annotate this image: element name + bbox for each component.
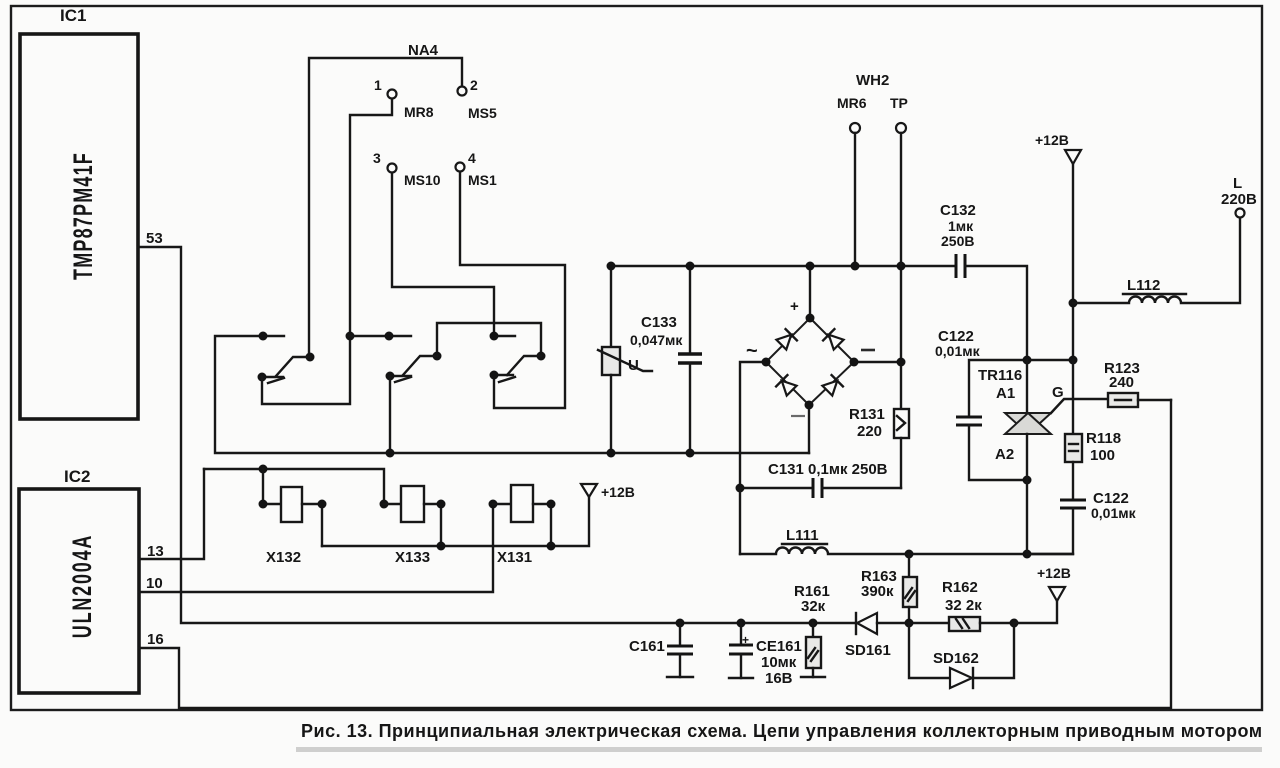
terminal 2 circle [458, 87, 467, 96]
varistor U diagonal with tail [598, 350, 652, 371]
wire varistor upper lead [610, 266, 612, 347]
wire X133 coil right lead down to +12V bus [424, 504, 441, 546]
wire SD162 right leg [973, 623, 1014, 678]
wire MR8 node to S2 upper contact [350, 335, 411, 337]
svg-text:TP: TP [890, 95, 908, 111]
switch S3 arm [507, 356, 541, 375]
wire C131 node down to L111 bus [739, 488, 741, 554]
wire X132 coil right lead down to +12V bus [302, 504, 322, 546]
junction dot bus at X133 [437, 542, 446, 551]
relay coil X132 box [281, 487, 302, 522]
diode SD162 [950, 668, 973, 688]
wire C133 lower lead [689, 363, 691, 453]
wire MR6 down to AC bus [854, 133, 856, 266]
junction dot bridge top on AC bus [806, 262, 815, 271]
capacitor C131 plates [813, 478, 822, 498]
svg-text:IC1: IC1 [60, 6, 86, 25]
terminal 3 circle [388, 164, 397, 173]
capacitor CE161 plates [729, 645, 753, 654]
L112 label underline [1123, 293, 1186, 295]
R161 power marks [808, 648, 818, 661]
L111 label underline [782, 543, 827, 545]
switch S3 upper contact stub [494, 335, 515, 337]
junction dot varistor top [607, 262, 616, 271]
svg-text:16В: 16В [765, 670, 793, 687]
wire TP circle stem [900, 133, 902, 266]
junction dot C133 bottom on bus A [686, 449, 695, 458]
bridge diode D2 upper-right [823, 329, 844, 350]
wire X131 coil left lead [493, 503, 511, 505]
wire +12V stem down to A1 line [1072, 164, 1074, 360]
svg-text:U: U [628, 357, 639, 374]
svg-text:1: 1 [374, 77, 382, 93]
svg-text:240: 240 [1109, 374, 1134, 391]
wire R161 upper lead [812, 623, 814, 637]
resistor R131 box [894, 409, 909, 438]
junction dot L111 bus at R163 [905, 550, 914, 559]
bridge minus label right [861, 349, 875, 352]
junction dot L111 bus at A2 [1023, 550, 1032, 559]
svg-text:+: + [790, 298, 799, 315]
svg-text:A1: A1 [996, 385, 1015, 402]
terminal 4 circle [456, 163, 465, 172]
switch S3 lower contact stub [494, 374, 513, 376]
wire R161 lower lead with end bar [801, 668, 825, 677]
wire SD161 to R163 node [877, 622, 949, 624]
wire bridge right vertex to TP net [854, 361, 901, 363]
junction dot X131 right [547, 500, 556, 509]
switch S2 lower contact dot [386, 372, 395, 381]
wire triac gate to R123 [1051, 399, 1108, 413]
inductor L112 [1073, 218, 1240, 303]
wire NA4 bracket from terminal 2 to switch S1 pivot [309, 58, 462, 357]
wire X131 coil right lead down to +12V bus [533, 504, 551, 546]
capacitor C161 plates [667, 646, 693, 654]
junction dot X132 left [259, 500, 268, 509]
terminal 1 circle [388, 90, 397, 99]
svg-text:A2: A2 [995, 446, 1014, 463]
diode SD161 [856, 613, 877, 634]
svg-text:2: 2 [470, 77, 478, 93]
wire bridge top vertex to AC bus [809, 266, 811, 318]
svg-text:NA4: NA4 [408, 42, 439, 59]
bridge minus label bottom [791, 415, 805, 417]
terminal MR6 circle [850, 123, 860, 133]
wire IC2 pin 13 to relay coil bus [139, 469, 204, 559]
svg-text:R162: R162 [942, 579, 978, 596]
svg-text:SD162: SD162 [933, 650, 979, 667]
svg-text:R131: R131 [849, 406, 885, 423]
junction dot C133 top [686, 262, 695, 271]
svg-text:+12В: +12В [1035, 132, 1069, 148]
wire A1 node line [969, 360, 1073, 417]
terminal L 220V circle [1236, 209, 1245, 218]
junction dot C131 left node [736, 484, 745, 493]
junction dot L112 branch [1069, 299, 1078, 308]
svg-text:C133: C133 [641, 314, 677, 331]
svg-text:220В: 220В [1221, 191, 1257, 208]
svg-text:+12В: +12В [601, 484, 635, 500]
svg-text:0,047мк: 0,047мк [630, 332, 683, 348]
svg-text:X133: X133 [395, 549, 430, 566]
junction dot A2 node [1023, 476, 1032, 485]
varistor U box [602, 347, 620, 375]
svg-text:13: 13 [147, 543, 164, 560]
wire C133 upper lead [689, 266, 691, 354]
switch S2 lower contact [390, 375, 411, 377]
wire C161 upper lead [679, 623, 681, 646]
wire bus A with S1 upper contact and left riser [215, 336, 809, 453]
switch S1 arm [276, 357, 310, 376]
svg-text:53: 53 [146, 230, 163, 247]
junction dot X133 right [437, 500, 446, 509]
svg-text:G: G [1052, 384, 1064, 401]
IC U IC2 box [19, 489, 139, 693]
svg-text:0,01мк: 0,01мк [935, 343, 981, 359]
svg-text:3: 3 [373, 150, 381, 166]
wire TP net vertical to R131 [900, 266, 902, 409]
wire triac A1 lead [1026, 360, 1028, 413]
junction dot A1 at R118 branch [1069, 356, 1078, 365]
svg-text:CE161: CE161 [756, 638, 802, 655]
wire terminal 1 MR8 net down to junction [350, 99, 392, 336]
power +12V antenna symbol right [1049, 587, 1065, 601]
junction dot X133 left [380, 500, 389, 509]
wire IC2 pin 10 to relay X131 coil [139, 504, 493, 592]
terminal TP circle [896, 123, 906, 133]
junction dot signal at R161 [809, 619, 818, 628]
svg-text:MR8: MR8 [404, 104, 434, 120]
switch S3 upper contact dot [490, 332, 499, 341]
svg-text:MR6: MR6 [837, 95, 867, 111]
resistor R118 box [1065, 434, 1082, 462]
svg-text:0,01мк: 0,01мк [1091, 505, 1137, 521]
junction dot TP on AC bus [897, 262, 906, 271]
R118 power marks [1069, 444, 1078, 451]
R123 power mark [1115, 399, 1131, 401]
bridge diode D3 lower-left [776, 375, 797, 396]
wire relay bottom +12V bus [322, 497, 589, 546]
switch S1 lower contact [262, 376, 283, 378]
svg-text:L111: L111 [786, 527, 819, 544]
junction dot S1 upper contact [259, 332, 268, 341]
wire terminal 3 MS10 net to switch S3 upper contact [392, 173, 494, 336]
wire R118 branch from A1 line [1072, 360, 1074, 434]
wire R123 right to bottom bus riser [1138, 399, 1171, 401]
capacitor C132 plates [956, 254, 965, 278]
switch S1 arm tick [268, 378, 284, 383]
bridge diode D4 lower-right [822, 375, 843, 396]
IC U IC1 box [20, 34, 138, 419]
wire relay coil top bus [204, 469, 384, 504]
junction dot bus at X131 [547, 542, 556, 551]
switch S1 lower contact dot [258, 373, 267, 382]
switch S2 arm [403, 356, 437, 375]
wire X132 coil left lead [263, 469, 281, 504]
svg-text:4: 4 [468, 150, 476, 166]
svg-text:220: 220 [857, 423, 882, 440]
switch S3 lower contact dot [490, 371, 499, 380]
svg-text:+12В: +12В [1037, 565, 1071, 581]
svg-text:C132: C132 [940, 202, 976, 219]
bridge vertex dots [762, 314, 859, 410]
bridge rectifier diamond [766, 318, 854, 405]
wire C131 left lead [740, 487, 813, 489]
wire S2 S3 pivot bus [437, 323, 541, 356]
wire C132 right lead down to A1 node [965, 266, 1027, 360]
resistor R163 box [903, 577, 917, 607]
resistor R161 box [806, 637, 821, 668]
junction dot coil bus X132 [259, 465, 268, 474]
switch S1 pivot dot [306, 353, 315, 362]
power +12V antenna symbol middle [1065, 150, 1081, 164]
wire +12V node to antenna [1014, 601, 1057, 623]
wire signal line C161 to SD161 [680, 622, 856, 624]
svg-text:SD161: SD161 [845, 642, 891, 659]
wire X133 coil left lead [384, 503, 401, 505]
capacitor C122 snubber plates [956, 417, 982, 425]
wire R163 lower lead [908, 607, 910, 623]
svg-text:32к: 32к [801, 598, 826, 615]
junction dot X131 left [489, 500, 498, 509]
resistor R162 box [949, 617, 980, 631]
junction dot R163 node [905, 619, 914, 628]
svg-text:MS1: MS1 [468, 172, 497, 188]
junction dot MR6 on AC bus [851, 262, 860, 271]
wire R118 to C122 [1072, 462, 1074, 500]
wire S1 lower contact to MR8 junction [262, 336, 350, 404]
svg-text:IC2: IC2 [64, 467, 90, 486]
junction dot MR8 node [346, 332, 355, 341]
wire SD162 branch left leg [909, 623, 950, 678]
wire R131 bottom to C131 line [900, 438, 902, 488]
svg-text:10мк: 10мк [761, 654, 797, 671]
wire varistor lower lead [610, 375, 612, 453]
svg-text:L112: L112 [1127, 277, 1160, 294]
junction dot +12V node [1010, 619, 1019, 628]
bridge diode D1 upper-left [776, 329, 797, 350]
wire C122 snubber lower lead to A2 [969, 425, 1027, 480]
wire S2 lower contact down to bus A [389, 376, 391, 453]
switch S2 arm tick [395, 377, 411, 382]
capacitor C133 plates [678, 354, 702, 363]
wire IC1 pin 53 to node at bottom signal line [138, 247, 680, 623]
wire IC2 pin 16 bottom bus to R123 [139, 400, 1171, 708]
junction dot signal at C161 [676, 619, 685, 628]
junction dot signal at CE161 [737, 619, 746, 628]
capacitor C122 gate plates [1060, 500, 1086, 508]
wire C122 gate lower lead to L111 bus corner [1027, 508, 1073, 554]
svg-text:Рис. 13. Принципиальная электр: Рис. 13. Принципиальная электрическая сх… [301, 721, 1263, 741]
R131 chevron mark [897, 416, 905, 430]
wire top AC bus [611, 265, 956, 267]
junction dot A1 at triac [1023, 356, 1032, 365]
relay coil X131 box [511, 485, 533, 522]
svg-text:1мк: 1мк [948, 218, 974, 234]
wire CE161 lower lead with end bar [729, 654, 753, 678]
svg-text:100: 100 [1090, 447, 1115, 464]
wire C161 lower lead with end bar [667, 654, 693, 677]
relay coil X133 box [401, 486, 424, 522]
wire triac A2 lead down to L111 bus [1026, 434, 1028, 554]
svg-text:TMP87PM41F: TMP87PM41F [67, 152, 98, 280]
svg-text:32 2к: 32 2к [945, 597, 982, 614]
switch S3 pivot dot [537, 352, 546, 361]
svg-text:L: L [1233, 175, 1242, 192]
svg-text:MS5: MS5 [468, 105, 497, 121]
wire CE161 upper lead [740, 623, 742, 645]
wire R163 upper lead [908, 554, 910, 577]
switch S3 arm tick [499, 377, 515, 382]
svg-text:~: ~ [746, 340, 758, 362]
svg-text:R118: R118 [1086, 430, 1121, 447]
junction dot S2 upper contact [385, 332, 394, 341]
R162 power marks [956, 619, 969, 628]
wire bridge bottom vertex to bus A [808, 405, 810, 453]
wire R162 right to +12V node [980, 622, 1014, 624]
svg-text:X131: X131 [497, 549, 532, 566]
resistor R123 box [1108, 393, 1138, 407]
triac TR116 triangles [1005, 413, 1051, 434]
svg-text:WH2: WH2 [856, 72, 889, 89]
switch S2 pivot dot [433, 352, 442, 361]
junction dot X132 right [318, 500, 327, 509]
junction dot bus A at S2 [386, 449, 395, 458]
svg-text:390к: 390к [861, 583, 894, 600]
junction dot varistor bottom on bus A [607, 449, 616, 458]
wire C131 right lead [822, 487, 901, 489]
scan artifact line [296, 747, 1262, 752]
R163 power marks [905, 588, 915, 601]
svg-text:X132: X132 [266, 549, 301, 566]
wire terminal 4 MS1 net to switch S3 lower contact [460, 172, 565, 408]
svg-text:C131 0,1мк 250В: C131 0,1мк 250В [768, 461, 888, 478]
inductor L111 [740, 548, 1073, 555]
svg-text:250В: 250В [941, 233, 974, 249]
svg-text:ULN2004A: ULN2004A [66, 534, 97, 638]
svg-text:MS10: MS10 [404, 172, 441, 188]
svg-text:C161: C161 [629, 638, 665, 655]
power +12V antenna symbol left [581, 484, 597, 497]
svg-text:TR116: TR116 [978, 367, 1022, 384]
wire bridge left vertex to C131 node [740, 362, 766, 488]
svg-text:10: 10 [146, 575, 163, 592]
svg-text:16: 16 [147, 631, 164, 648]
junction dot TP bridge right [897, 358, 906, 367]
